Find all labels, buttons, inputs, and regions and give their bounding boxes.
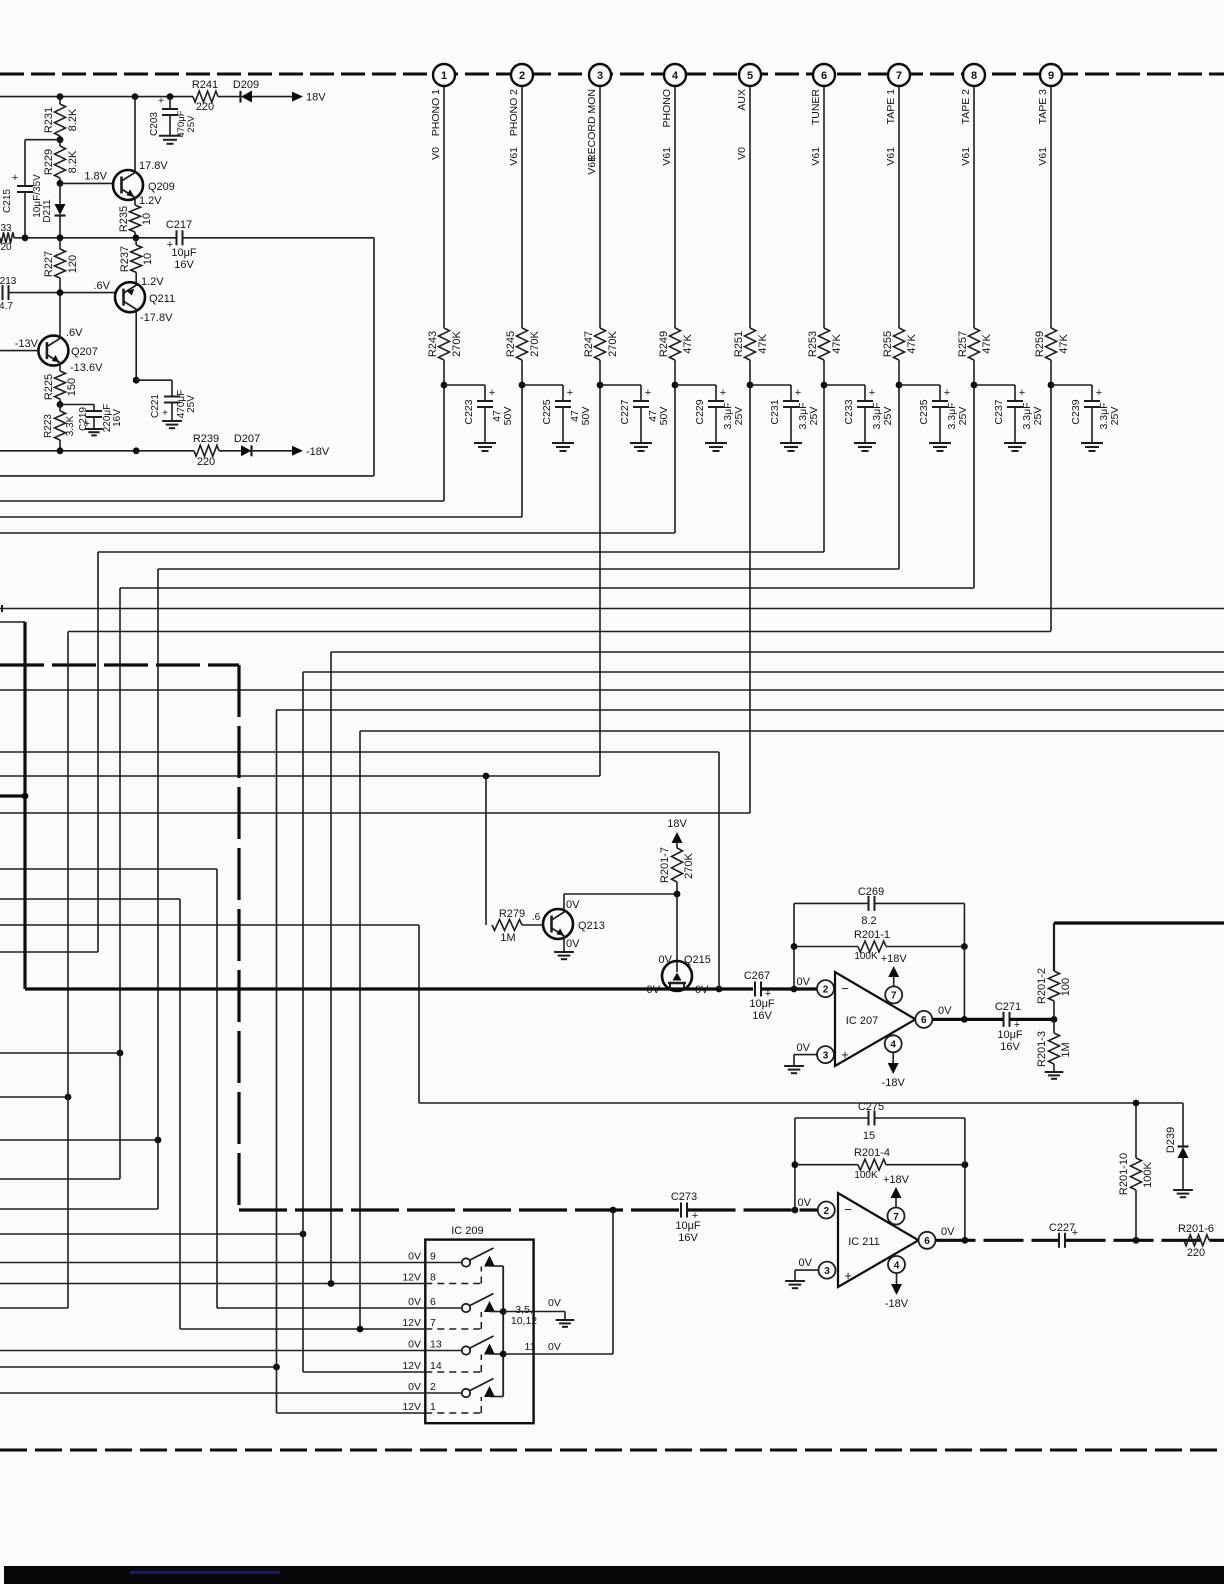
wire R243 bottom to node [443,360,445,385]
wire TAPE2 exit y=1179 [0,1178,120,1180]
IC209 switch 4 arrow [484,1386,495,1397]
svg-text:+: + [944,387,950,399]
resistor R249 47K [670,328,681,360]
svg-text:8.2K: 8.2K [67,150,79,173]
svg-text:7: 7 [891,991,897,1002]
capacitor C217 10uF 16V [176,230,178,245]
svg-text:PHONO 1: PHONO 1 [430,89,442,136]
IC209 switch 1 contact [425,1262,461,1264]
ground below D239 [1173,1189,1193,1191]
wire R247 bottom to node [599,360,601,385]
svg-text:16V: 16V [752,1010,772,1022]
node pin8/vertical x=331 [328,1280,335,1287]
svg-text:R201-4: R201-4 [854,1147,890,1159]
svg-text:V61: V61 [885,147,897,166]
wire R253 bottom to node [823,360,825,385]
svg-text:C219: C219 [78,407,89,431]
svg-text:+: + [162,408,168,419]
svg-text:16V: 16V [1000,1041,1020,1053]
svg-text:1.2V: 1.2V [141,276,164,288]
svg-text:47K: 47K [831,334,843,354]
node x=964 on output [961,1016,968,1023]
svg-text:2: 2 [430,1381,436,1393]
IC211 pin 6 output [919,1232,936,1249]
IC209 switch 2 arrow [484,1301,495,1312]
wire AUX run y=813 [0,812,750,814]
node x=794 R201-1 [791,943,798,950]
vertical x=719 from y=752 [718,752,720,989]
heavy output wire y=923 to right edge [1054,921,1224,924]
wire y=731 from x=360 to right edge [360,730,1224,732]
svg-text:C231: C231 [769,399,781,424]
svg-text:1: 1 [441,70,447,82]
svg-text:100K: 100K [854,1170,878,1181]
svg-text:Q211: Q211 [149,293,175,305]
capacitor C233 3.3μF 25V [857,400,873,402]
mid wire y=237.8 with stub resistor at left edge [0,232,14,243]
wire node to capacitor C231 [750,384,791,386]
svg-text:R249: R249 [658,331,670,357]
wire C271 to R divider [1010,1018,1055,1021]
svg-text:1: 1 [430,1401,436,1413]
feedback left vertical x=794.9 [794,1118,796,1210]
svg-text:+: + [1096,387,1102,399]
wire C217 right then down at x=374 [183,237,375,239]
svg-text:D207: D207 [234,433,260,445]
wire TAPE1 run y=569 [158,568,899,570]
wire node to capacitor C227 [600,384,641,386]
IC209 box [425,1240,533,1424]
svg-text:0V: 0V [799,1257,813,1269]
svg-text:0V: 0V [797,1042,811,1054]
diode D207 [241,445,252,456]
node y=1140 TAPE1 vertical [155,1137,162,1144]
terminal 8 [963,64,985,86]
svg-text:50V: 50V [502,407,514,426]
svg-text:Q213: Q213 [578,920,605,932]
ground below C237 [1004,442,1026,444]
svg-text:R239: R239 [193,433,219,445]
terminal 1 [433,64,455,86]
svg-text:10: 10 [141,213,153,225]
ground below C229 [705,442,727,444]
ground below C223 [474,442,496,444]
wire node down to corner y=588 [973,385,975,588]
wire node to capacitor C233 [824,384,865,386]
svg-text:12V: 12V [402,1360,421,1372]
node at (522,385) [519,382,526,389]
svg-text:10μF: 10μF [171,247,197,259]
feedback right vertical x=964 [963,903,965,1019]
svg-text:+: + [1019,387,1025,399]
svg-text:C217: C217 [166,219,192,231]
svg-text:220: 220 [197,456,215,468]
terminal 6 [813,64,835,86]
feedback left vertical x=794 [793,903,795,989]
transistor Q211 (PNP) [135,272,137,283]
svg-text:R223: R223 [43,414,54,438]
svg-text:6: 6 [924,1236,930,1247]
svg-text:V0: V0 [430,147,442,160]
heavy dashed wire y=1210 to IC211 [239,1208,681,1211]
svg-text:+: + [869,387,875,399]
svg-text:47K: 47K [682,334,694,354]
svg-text:C271: C271 [995,1001,1021,1013]
wire y=672 from x=303 to right edge [303,671,1224,673]
svg-text:10,12: 10,12 [511,1315,537,1327]
svg-text:18V: 18V [306,92,326,104]
input line PHONO 1: wire from terminal 1 down [443,85,445,328]
wire rail2 y=475.9 from left edge to x=374 [0,475,374,477]
node at (974,385) [971,382,978,389]
svg-text:9: 9 [430,1251,436,1263]
svg-text:8.2K: 8.2K [67,108,79,131]
svg-text:R237: R237 [119,246,131,272]
svg-text:0V: 0V [798,1197,812,1209]
svg-text:25V: 25V [733,407,745,426]
svg-text:C225: C225 [541,399,553,424]
svg-text:C223: C223 [463,399,475,424]
bottom black bar [4,1566,1224,1584]
terminal 2 [511,64,533,86]
node output divider [1051,1016,1058,1023]
svg-text:C267: C267 [744,970,770,982]
svg-text:.6: .6 [532,912,541,923]
IC211 pin 7 +18V [888,1208,905,1225]
svg-text:6: 6 [921,1015,927,1026]
svg-text:5: 5 [747,70,753,82]
resistor R251 47K [745,328,756,360]
svg-text:-13.6V: -13.6V [70,362,103,374]
svg-text:20: 20 [0,242,12,253]
svg-text:R201-10: R201-10 [1118,1153,1130,1195]
svg-text:25V: 25V [1109,407,1121,426]
wire node down to corner y=533 [674,385,676,533]
node R201-10 top on y=1103 [1133,1100,1140,1107]
node y=1367 vertical x=276.5 [273,1364,280,1371]
capacitor C203 470uF 25V [169,97,171,109]
terminal 3 [589,64,611,86]
svg-text:C235: C235 [918,399,930,424]
svg-text:TAPE 1: TAPE 1 [885,89,897,125]
heavy signal wire y=989 to IC207 [25,987,753,990]
svg-text:+: + [567,387,573,399]
resistor R245 270K [517,328,528,360]
svg-text:R243: R243 [427,331,439,357]
wire PHONO2 exit y=517 [0,516,522,518]
vertical x=331 to pin8 line [330,652,332,1284]
resistor R201-7 270K [672,848,683,882]
svg-text:R253: R253 [807,331,819,357]
bottom -18V rail y=450.8 [0,450,194,452]
ground below C239 [1081,442,1103,444]
node A rail/R231 [57,93,64,100]
IC209 switch 3 contact [425,1350,461,1352]
svg-text:2: 2 [519,70,525,82]
node pin7/vertical x=360 [357,1326,364,1333]
wire TAPE1 exit y=1209 [0,1208,158,1210]
svg-text:R201-3: R201-3 [1036,1031,1048,1067]
svg-text:IC 207: IC 207 [846,1015,878,1027]
IC207 pin 6 output [915,1011,932,1028]
node rail/Q209 collector [132,93,139,100]
18V arrow feed R201-7 [672,832,683,843]
capacitor C275 15 [868,1111,870,1126]
svg-text:25V: 25V [808,407,820,426]
wire R241 to D209 [218,96,240,98]
svg-text:-13V: -13V [15,338,39,350]
wire node down to corner y=631 [1050,385,1052,631]
vertical x=276.5 to pin1 line [276,710,278,1413]
wire pin2 line y=1393 from left edge [0,1392,425,1394]
resistor R241 220 [193,91,218,102]
svg-text:0V: 0V [566,938,580,950]
resistor R257 47K [969,328,980,360]
wire R201-7 to Q215 gate [676,882,678,972]
svg-text:R231: R231 [43,107,55,133]
svg-text:R201-1: R201-1 [854,929,890,941]
feedback mid wire R201-4 100K [795,1164,858,1166]
capacitor C269 8.2 [868,896,870,911]
svg-text:R241: R241 [192,79,218,91]
svg-text:C215: C215 [2,189,13,213]
node at (600,385) [597,382,604,389]
node common/row13 [500,1351,507,1358]
svg-text:1.8V: 1.8V [84,171,107,183]
resistor R227 120 [59,238,61,249]
svg-text:R247: R247 [583,331,595,357]
top dashed border line [0,73,1224,76]
capacitor C239 3.3μF 25V [1084,400,1100,402]
ground below C203 [159,135,181,137]
svg-text:10μF: 10μF [997,1029,1023,1041]
wire y=925 to x=419 [0,924,419,926]
svg-text:16V: 16V [174,259,194,271]
wire pin14 line y=1372 from x=303 [303,1371,425,1373]
wire D209 to 18V arrow [252,96,296,98]
node feedback left on pin2 wire [792,1207,799,1214]
wire pin8 line y=1283.5 from left edge [0,1283,425,1285]
vertical x=486 drop to R279 [485,776,487,925]
terminal 7 [888,64,910,86]
svg-text:V0: V0 [736,147,748,160]
node x=964.9 on output [962,1237,969,1244]
wire C213 to Q211 base [9,292,117,294]
svg-text:D239: D239 [1165,1127,1177,1153]
resistor R235 10 [130,205,141,232]
wire y=869 to x=217 [0,868,217,870]
resistor R223 3.3K [59,405,61,412]
svg-text:C275: C275 [858,1101,884,1113]
node y=1053 TAPE2 vertical [117,1050,124,1057]
svg-text:150: 150 [66,378,78,396]
IC209 switch 2 contact [425,1307,461,1309]
wire PHONO3 exit y=533 [0,532,675,534]
wire y=710 from x=276 to right edge [276,709,1224,711]
input line TAPE 2: wire from terminal 8 down [973,85,975,328]
capacitor C229 3.3μF 25V [708,400,724,402]
wire y=752 from left edge to x=719 [0,751,719,753]
svg-text:V61: V61 [586,156,598,175]
svg-text:8: 8 [430,1272,436,1284]
IC209 dashed link pin row 2 [425,1328,481,1330]
feedback mid wire R201-1 100K [794,946,858,948]
wire node down to corner y=517 [521,385,523,517]
ground at IC211 pin3 [785,1280,805,1282]
ground below Q213 [554,951,574,953]
vertical x=180 to pin7 line [179,899,181,1329]
svg-text:R259: R259 [1034,331,1046,357]
wire pin7 line y=1329 from x=180 [180,1328,425,1330]
bottom dashed border line [0,1449,1224,1452]
IC211 pin 4 -18V [888,1256,905,1273]
ground below C227 [630,442,652,444]
svg-text:12V: 12V [402,1272,421,1284]
svg-text:R201-6: R201-6 [1178,1223,1214,1235]
capacitor C273 10uF 16V [680,1203,682,1218]
svg-text:R257: R257 [957,331,969,357]
svg-text:3: 3 [824,1266,830,1277]
svg-text:0V: 0V [408,1381,421,1393]
svg-text:-18V: -18V [306,446,330,458]
node Q211 base / R227 / Q207 collector [57,289,64,296]
svg-text:R201-2: R201-2 [1036,968,1048,1004]
svg-text:4: 4 [672,70,679,82]
svg-text:C221: C221 [150,394,161,418]
wire R251 bottom to node [749,360,751,385]
svg-text:9: 9 [1048,70,1054,82]
svg-text:18V: 18V [667,818,687,830]
svg-text:V61: V61 [810,147,822,166]
wire stub y=622 to heavy vertical [0,621,25,623]
svg-text:D209: D209 [233,79,259,91]
resistor R201-6 220 [1184,1235,1209,1246]
svg-text:25V: 25V [882,407,894,426]
svg-text:R245: R245 [505,331,517,357]
svg-text:IC 209: IC 209 [451,1225,483,1237]
wire R259 bottom to node [1050,360,1052,385]
svg-text:R227: R227 [43,251,55,277]
wire y=1097 to x=68 [0,1096,68,1098]
svg-text:270K: 270K [451,330,463,356]
IC209 dashed link pin row 1 [425,1283,481,1285]
wire node to capacitor C237 [974,384,1015,386]
IC209 switch 2 arm [470,1294,494,1306]
heavy vertical x=25 [23,622,26,989]
wire y=1140 to x=158 [0,1139,158,1141]
svg-text:Q207: Q207 [71,346,98,358]
capacitor C227 (output) [1058,1233,1060,1248]
node y=776 R279 tap [483,773,490,780]
IC211 pin 3 [819,1262,836,1279]
svg-text:220: 220 [1187,1247,1205,1259]
svg-text:7: 7 [893,1212,899,1223]
IC209 switch 4 arm [470,1379,494,1391]
svg-text:25V: 25V [957,407,969,426]
svg-text:-18V: -18V [882,1077,906,1089]
IC207 pin 4 -18V [885,1035,902,1052]
IC207 output wire y=1019.4 [932,1018,1003,1021]
svg-text:V61: V61 [1037,147,1049,166]
svg-text:1M: 1M [500,932,515,944]
resistor R259 47K [1046,328,1057,360]
svg-text:+18V: +18V [881,953,908,965]
IC209 dashed link pin row 3 [425,1371,481,1373]
svg-text:C229: C229 [694,399,706,424]
wire node down to corner y=776 [599,385,601,776]
capacitor C223 47 50V [477,400,493,402]
capacitor C231 3.3μF 25V [783,400,799,402]
svg-text:0V: 0V [548,1341,561,1353]
node R235/R237 [133,234,140,241]
svg-text:V61: V61 [960,147,972,166]
ground below C221 [162,420,182,422]
ground below C219 [85,428,103,430]
svg-text:4: 4 [890,1040,896,1051]
wire TAPE3 run y=631.5 [68,631,1051,633]
wire node to capacitor C239 [1051,384,1092,386]
svg-text:47K: 47K [1058,334,1070,354]
svg-text:0V: 0V [408,1339,421,1351]
svg-text:C237: C237 [993,399,1005,424]
svg-text:0V: 0V [408,1251,421,1263]
wire R279 to Q213 base [522,924,543,926]
IC209 switch 1 arrow [484,1256,495,1267]
IC211 pin3 wire to ground [795,1269,819,1271]
node common/row6 [500,1308,507,1315]
transistor Q209 [134,97,136,172]
svg-text:+: + [489,387,495,399]
node D211 bottom [57,234,64,241]
svg-text:0V: 0V [797,976,811,988]
svg-text:220: 220 [196,101,214,113]
FET Q215 [662,961,692,991]
wire bus y=608 full width with left tick [1,605,3,612]
svg-text:Q215: Q215 [684,954,711,966]
svg-text:+: + [720,387,726,399]
resistor R201-10 100K [1135,1103,1137,1158]
svg-text:0V: 0V [938,1005,952,1017]
IC211 output heavy dashed wire y=1240.3 [936,1239,1059,1242]
svg-text:100K: 100K [1142,1161,1154,1187]
svg-text:270K: 270K [529,330,541,356]
input line TUNER: wire from terminal 6 down [823,85,825,328]
svg-text:120: 120 [67,255,79,273]
svg-text:D211: D211 [42,199,53,223]
svg-text:16V: 16V [112,409,123,427]
svg-text:0V: 0V [548,1297,561,1309]
resistor R229 8.2K [59,140,61,146]
svg-text:12V: 12V [402,1401,421,1413]
svg-text:6: 6 [821,70,827,82]
svg-text:3.3K: 3.3K [65,415,76,436]
svg-text:15: 15 [863,1130,875,1142]
wire common to pins 3,5,10,12 ground [503,1311,565,1313]
wire R257 bottom to node [973,360,975,385]
wire node to capacitor C223 [444,384,485,386]
node y=1234 vertical x=303 [300,1231,307,1238]
svg-text:-18V: -18V [885,1298,909,1310]
wire y=1053 to x=120 [0,1052,120,1054]
svg-text:1.2V: 1.2V [139,195,162,207]
svg-text:8: 8 [971,70,977,82]
svg-text:−: − [844,1202,852,1217]
svg-text:−: − [841,981,849,996]
Q213 emitter to ground [563,937,565,952]
resistor R231 8.2K [59,97,61,104]
IC209 switch 3 arm [470,1336,494,1348]
svg-text:C273: C273 [671,1191,697,1203]
